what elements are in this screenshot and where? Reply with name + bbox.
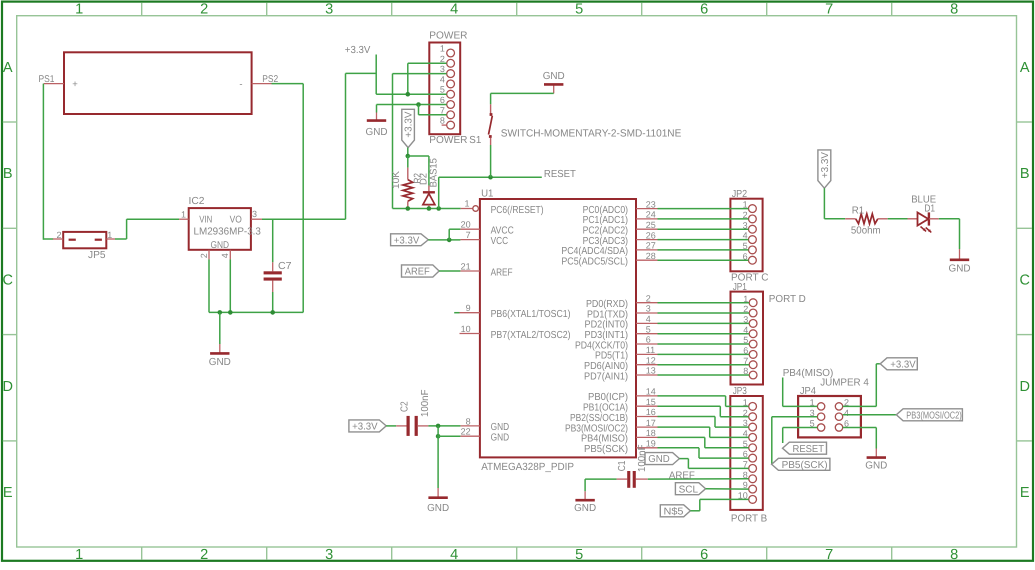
svg-text:VIN: VIN <box>199 214 212 225</box>
svg-text:6: 6 <box>700 2 708 18</box>
svg-text:PORT B: PORT B <box>731 514 767 525</box>
svg-text:LM2936MP-3.3: LM2936MP-3.3 <box>194 227 262 238</box>
svg-text:C7: C7 <box>278 261 292 272</box>
svg-text:17: 17 <box>646 418 656 428</box>
svg-text:18: 18 <box>646 428 656 438</box>
svg-text:PB4(MISO): PB4(MISO) <box>783 368 834 379</box>
svg-text:26: 26 <box>646 230 656 240</box>
svg-text:GND: GND <box>211 240 230 251</box>
svg-text:S1: S1 <box>469 135 481 146</box>
svg-text:28: 28 <box>646 251 656 261</box>
svg-text:ATMEGA328P_PDIP: ATMEGA328P_PDIP <box>481 462 574 473</box>
svg-text:6: 6 <box>700 547 708 563</box>
svg-text:JP5: JP5 <box>88 250 106 261</box>
svg-text:+3.3V: +3.3V <box>394 235 420 246</box>
svg-text:GND: GND <box>366 127 388 138</box>
svg-text:4: 4 <box>450 2 458 18</box>
svg-text:24: 24 <box>646 210 656 220</box>
svg-text:100nF: 100nF <box>637 445 648 473</box>
svg-text:D: D <box>2 379 12 395</box>
svg-text:3: 3 <box>325 2 333 18</box>
svg-text:PD7(AIN1): PD7(AIN1) <box>584 371 628 382</box>
svg-text:JP3: JP3 <box>733 386 747 397</box>
svg-text:5: 5 <box>575 2 583 18</box>
svg-text:U1: U1 <box>481 189 494 200</box>
svg-text:GND: GND <box>427 503 449 514</box>
svg-text:13: 13 <box>646 366 656 376</box>
svg-text:11: 11 <box>646 345 655 355</box>
svg-text:JP2: JP2 <box>732 189 748 200</box>
svg-text:7: 7 <box>825 2 833 18</box>
svg-text:D1: D1 <box>924 203 935 214</box>
svg-text:7: 7 <box>825 547 833 563</box>
svg-text:A: A <box>1020 60 1030 76</box>
svg-text:27: 27 <box>646 241 656 251</box>
svg-text:B: B <box>3 166 13 182</box>
svg-text:4: 4 <box>440 74 445 84</box>
svg-text:SWITCH-MOMENTARY-2-SMD-1101NE: SWITCH-MOMENTARY-2-SMD-1101NE <box>501 129 682 140</box>
svg-text:POWER: POWER <box>429 135 467 146</box>
svg-text:PB5(SCK): PB5(SCK) <box>782 460 828 471</box>
svg-text:GND: GND <box>491 433 510 444</box>
svg-text:2: 2 <box>440 54 445 64</box>
svg-text:GND: GND <box>865 461 887 472</box>
svg-text:21: 21 <box>461 262 471 272</box>
svg-text:VO: VO <box>230 214 243 225</box>
svg-text:20: 20 <box>461 220 471 230</box>
svg-text:JP4: JP4 <box>800 386 816 397</box>
svg-text:PD1(TXD): PD1(TXD) <box>587 309 628 320</box>
svg-text:1: 1 <box>75 2 83 18</box>
svg-text:8: 8 <box>950 547 958 563</box>
svg-text:PB3(MOSI/OC2): PB3(MOSI/OC2) <box>906 410 962 421</box>
svg-text:PS1: PS1 <box>39 74 55 85</box>
svg-text:PB5(SCK): PB5(SCK) <box>584 444 628 455</box>
svg-text:PB6(XTAL1/TOSC1): PB6(XTAL1/TOSC1) <box>491 309 571 320</box>
svg-text:14: 14 <box>646 387 656 397</box>
svg-text:1: 1 <box>181 209 186 219</box>
svg-text:PORT D: PORT D <box>769 294 806 305</box>
svg-text:AREF: AREF <box>405 267 430 278</box>
svg-text:3: 3 <box>646 304 651 314</box>
svg-text:PB2(SS/OC1B): PB2(SS/OC1B) <box>570 413 628 424</box>
svg-text:4: 4 <box>646 314 651 324</box>
svg-text:+3.3V: +3.3V <box>345 45 371 56</box>
svg-text:IC2: IC2 <box>189 196 205 207</box>
svg-text:16: 16 <box>646 407 656 417</box>
svg-text:15: 15 <box>646 397 656 407</box>
svg-text:2: 2 <box>646 293 651 303</box>
svg-text:3: 3 <box>325 547 333 563</box>
svg-text:A: A <box>3 60 13 76</box>
svg-text:10: 10 <box>461 324 471 334</box>
svg-text:POWER: POWER <box>429 30 467 41</box>
svg-text:1: 1 <box>75 547 83 563</box>
svg-text:3: 3 <box>440 64 445 74</box>
svg-text:5: 5 <box>575 547 583 563</box>
svg-text:5: 5 <box>440 85 445 95</box>
svg-text:PD4(XCK/T0): PD4(XCK/T0) <box>575 340 628 351</box>
svg-text:PC5(ADC5/SCL): PC5(ADC5/SCL) <box>561 257 628 268</box>
svg-text:1: 1 <box>464 199 469 209</box>
svg-text:2: 2 <box>200 547 208 563</box>
svg-text:5: 5 <box>646 324 651 334</box>
svg-text:2: 2 <box>200 2 208 18</box>
svg-text:4: 4 <box>450 547 458 563</box>
svg-text:4: 4 <box>844 408 849 418</box>
svg-text:E: E <box>3 485 13 501</box>
svg-text:RESET: RESET <box>793 444 825 455</box>
svg-text:100nF: 100nF <box>420 390 431 418</box>
svg-text:+: + <box>72 79 78 90</box>
svg-text:+3.3V: +3.3V <box>890 359 916 370</box>
svg-text:PC2(ADC2): PC2(ADC2) <box>583 226 628 237</box>
svg-text:+3.3V: +3.3V <box>352 422 378 433</box>
svg-text:50ohm: 50ohm <box>851 226 881 237</box>
svg-text:4: 4 <box>220 253 230 258</box>
svg-text:12: 12 <box>646 355 656 365</box>
svg-text:PC6(/RESET): PC6(/RESET) <box>491 205 544 216</box>
svg-text:-: - <box>239 79 242 90</box>
svg-text:1: 1 <box>107 230 112 240</box>
svg-text:PB4(MISO): PB4(MISO) <box>581 434 628 445</box>
svg-text:B: B <box>1020 166 1030 182</box>
svg-text:25: 25 <box>646 220 656 230</box>
svg-text:JP1: JP1 <box>733 282 747 293</box>
svg-text:10K: 10K <box>391 171 402 189</box>
svg-text:+3.3V: +3.3V <box>820 152 831 178</box>
svg-text:2: 2 <box>56 230 61 240</box>
svg-text:GND: GND <box>574 503 596 514</box>
svg-text:R1: R1 <box>852 206 865 217</box>
svg-text:1: 1 <box>440 44 445 54</box>
svg-text:PB7(XTAL2/TOSC2): PB7(XTAL2/TOSC2) <box>491 330 571 341</box>
svg-text:6: 6 <box>646 335 651 345</box>
svg-text:AREF: AREF <box>491 267 513 278</box>
svg-text:N$5: N$5 <box>664 506 684 517</box>
svg-text:VCC: VCC <box>491 236 509 247</box>
svg-text:D: D <box>1019 379 1029 395</box>
svg-text:GND: GND <box>209 357 231 368</box>
svg-text:C2: C2 <box>400 401 411 412</box>
svg-text:8: 8 <box>950 2 958 18</box>
svg-text:GND: GND <box>949 264 971 275</box>
svg-text:C1: C1 <box>617 460 628 471</box>
svg-text:+3.3V: +3.3V <box>404 111 415 137</box>
svg-text:3: 3 <box>252 209 257 219</box>
svg-text:8: 8 <box>440 116 445 126</box>
svg-text:8: 8 <box>466 416 471 426</box>
svg-text:7: 7 <box>440 105 445 115</box>
svg-text:22: 22 <box>461 427 471 437</box>
svg-text:E: E <box>1020 485 1030 501</box>
svg-text:9: 9 <box>466 303 471 313</box>
svg-text:23: 23 <box>646 199 656 209</box>
svg-text:AVCC: AVCC <box>491 226 514 237</box>
svg-text:2: 2 <box>199 253 209 258</box>
svg-text:6: 6 <box>440 95 445 105</box>
svg-text:PS2: PS2 <box>262 74 278 85</box>
svg-text:SCL: SCL <box>679 484 699 495</box>
svg-text:C: C <box>2 273 12 289</box>
svg-text:C: C <box>1019 273 1029 289</box>
svg-text:7: 7 <box>466 230 471 240</box>
svg-text:GND: GND <box>543 71 565 82</box>
svg-text:AREF: AREF <box>669 470 695 481</box>
svg-text:GND: GND <box>648 454 670 465</box>
svg-text:RESET: RESET <box>544 169 576 180</box>
